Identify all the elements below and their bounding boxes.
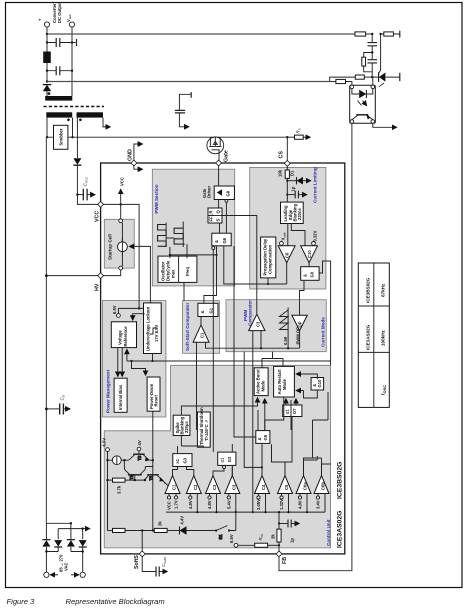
svg-text:T3: T3 [137, 455, 142, 461]
node junction bulk cap tap [45, 408, 48, 411]
node junctions on bus [196, 511, 198, 513]
svg-text:3k: 3k [158, 521, 163, 526]
node junction [371, 51, 373, 53]
diode bridge D4 [79, 540, 87, 547]
ground arrow GND down [134, 165, 142, 169]
svg-text:Soft-Start Comparator: Soft-Start Comparator [185, 303, 190, 351]
pin GND [131, 160, 137, 166]
optocoupler box [350, 85, 376, 123]
refs C6b [316, 494, 325, 513]
wire G6 to FF1 S [219, 223, 221, 233]
section PWM gray [152, 169, 234, 286]
resistor R2 [381, 31, 400, 38]
svg-text:HV: HV [95, 283, 101, 291]
transformer core dashed line [44, 106, 105, 108]
capacitor RC parallel C [368, 53, 378, 78]
resistor 10k CS [285, 170, 289, 202]
svg-text:+: + [38, 18, 43, 21]
svg-text:5.4V: 5.4V [227, 500, 232, 509]
block Voltage Reference [111, 322, 136, 348]
wire T1 emitter out [164, 482, 169, 496]
resistor 3k FB vertical [277, 522, 281, 543]
wire G3 risers [173, 436, 204, 476]
svg-text:17V 8.5V: 17V 8.5V [154, 325, 159, 342]
refs C6a [298, 494, 307, 513]
svg-text:G5: G5 [263, 434, 268, 440]
refs C2 [188, 494, 197, 513]
section Current Mode gray [226, 300, 326, 352]
wire AutoRestart up to CurrentMode [262, 352, 283, 368]
left HV bulk rail [45, 137, 47, 523]
section Power Management gray [102, 301, 165, 417]
wire osc to G6 [170, 254, 217, 256]
svg-text:Gate: Gate [224, 150, 230, 162]
opamp PWM OP [292, 315, 307, 330]
section Current Limiting gray [250, 167, 326, 289]
wire softS riser [141, 531, 143, 552]
svg-text:C6b: C6b [321, 482, 326, 490]
refs C3a [207, 494, 216, 513]
wire C10 to G9 [308, 263, 310, 267]
svg-text:4.8V: 4.8V [188, 500, 193, 509]
svg-text:6.5V: 6.5V [229, 534, 234, 543]
wire sense split [330, 77, 356, 81]
block gate G1 [198, 303, 218, 316]
node junction [152, 529, 154, 531]
capacitor output C1 [47, 38, 77, 47]
node junction TL431 ref [371, 76, 373, 78]
svg-text:VCC: VCC [95, 211, 101, 222]
sawtooth oscillator glyph [280, 308, 289, 334]
startup cell top pin circle [119, 219, 123, 223]
svg-text:S: S [216, 219, 221, 222]
svg-text:4V: 4V [137, 440, 142, 445]
wire G5 riser [232, 397, 283, 476]
wire T2-T1 top link [145, 467, 153, 470]
block gate G7 [283, 405, 302, 417]
wire sense rail lower (to opto/TL431) [47, 81, 330, 83]
svg-text:3.4V: 3.4V [316, 500, 321, 509]
svg-text:G8: G8 [226, 190, 231, 196]
svg-text:6.5V: 6.5V [102, 438, 107, 447]
block Thermal Shutdown [197, 407, 210, 447]
block Gate Driver [214, 186, 234, 200]
svg-text:Voltage: Voltage [118, 330, 123, 345]
resistor RC parallel R [362, 53, 372, 72]
wire FB to bus riser [278, 512, 280, 521]
section Soft Start gray [183, 301, 220, 354]
svg-text:C10: C10 [307, 250, 312, 258]
node junction base [134, 479, 136, 481]
node ref 6.5V burst [102, 438, 110, 452]
svg-text:67kHz: 67kHz [381, 283, 386, 297]
wire UVLO to VR arrow [133, 314, 145, 320]
svg-text:4.8V: 4.8V [298, 500, 303, 509]
resistor RFB [238, 543, 279, 547]
inductor output L [43, 52, 51, 64]
svg-text:C8: C8 [285, 252, 290, 258]
svg-text:6.5V: 6.5V [112, 305, 117, 314]
resistor divider R1 [355, 32, 372, 36]
optocoupler pin circles [350, 85, 354, 89]
svg-text:100kHz: 100kHz [381, 329, 386, 346]
svg-text:D1: D1 [290, 170, 295, 176]
transistor T1 [145, 475, 166, 484]
transformer primary winding [46, 112, 72, 117]
svg-text:ICE3AS02G: ICE3AS02G [337, 511, 344, 548]
transformer secondary winding [45, 96, 72, 101]
svg-text:Startup Cell: Startup Cell [108, 234, 113, 260]
block Propagation Delay Compensation [261, 237, 276, 278]
optocoupler light arrows [358, 101, 367, 106]
svg-text:Snubber: Snubber [59, 128, 64, 145]
wire drain line [73, 136, 288, 138]
node junction [46, 80, 48, 82]
transistor T2 [124, 469, 145, 480]
wire C1 to G1 [200, 317, 202, 325]
optocoupler LED [352, 89, 373, 99]
switch S1 [215, 526, 243, 540]
wire sense to CS pin [286, 137, 288, 161]
svg-text:4.8V: 4.8V [207, 500, 212, 509]
svg-text:ICE3BS02G: ICE3BS02G [366, 277, 371, 303]
snubber block [54, 125, 68, 149]
TL431 shunt regulator [372, 34, 400, 87]
comparator C1 soft start [193, 325, 209, 342]
wire C1 right input bus [206, 342, 300, 348]
comparator C3 PWM [249, 314, 265, 330]
wire startup to HV [103, 270, 121, 276]
wire S1 to bus [229, 512, 236, 530]
wire gate pin to driver [218, 165, 220, 185]
node junction [286, 194, 288, 196]
wire VCC internal rail [103, 204, 139, 308]
waveform clock glyph 1 [158, 223, 167, 248]
refs C5 [279, 494, 288, 513]
node junction [71, 70, 73, 72]
svg-text:SoftS: SoftS [134, 555, 140, 569]
svg-text:1.7V: 1.7V [174, 500, 179, 509]
wire spike blanking top [181, 398, 257, 415]
optocoupler phototransistor [352, 115, 373, 120]
arrow VCC internal [120, 190, 122, 205]
svg-text:G1: G1 [209, 307, 214, 313]
wire G1 to G6 [204, 246, 217, 303]
node junction [267, 283, 269, 285]
block Oscillator [158, 256, 197, 282]
resistor to TL431 [355, 75, 372, 79]
gate driver inverter bubble [225, 200, 228, 203]
svg-text:≥1: ≥1 [175, 458, 180, 463]
svg-text:≥1: ≥1 [285, 409, 290, 414]
node junction [123, 459, 125, 461]
svg-text:C1: C1 [172, 484, 177, 490]
wire osc clock riser 1 [169, 247, 171, 258]
block Internal Bias [114, 378, 127, 412]
resistor soft start [108, 528, 155, 532]
svg-text:C6a: C6a [303, 482, 308, 490]
node junction [141, 529, 143, 531]
svg-text:Compensation: Compensation [268, 244, 273, 274]
wire UVLO down stub [152, 354, 154, 362]
node phase dot primary [67, 119, 70, 122]
wire FB riser [278, 542, 280, 552]
wire power-down reset feed [132, 361, 146, 375]
comparator C3b [225, 476, 240, 494]
node junction source/drain rail [286, 136, 288, 138]
node junction [215, 254, 217, 256]
svg-text:VCC: VCC [167, 501, 172, 510]
node junction [138, 307, 140, 309]
wire T2 collector riser [123, 460, 125, 469]
node junction [130, 360, 132, 362]
svg-text:FB: FB [282, 557, 288, 564]
wire current limit to G6 [224, 246, 287, 284]
svg-text:Current Limiting: Current Limiting [313, 167, 318, 203]
wire T3 emitter to PDR rail [150, 459, 153, 461]
block Active Burst Mode [254, 368, 268, 396]
comparator C10 [301, 246, 318, 263]
node junction [278, 522, 280, 524]
node ref 4.0V [137, 440, 142, 451]
wire G10 bottom feed [296, 390, 317, 398]
node junction [71, 41, 73, 43]
node junction VCC [120, 203, 122, 205]
node junction [46, 33, 48, 35]
svg-text:C2: C2 [193, 484, 198, 490]
wire PDR riser down [152, 411, 154, 530]
wire VCC to startup [120, 204, 122, 219]
svg-text:Control Unit: Control Unit [326, 519, 331, 546]
node junction [260, 347, 262, 349]
node Vout- terminal [69, 22, 74, 27]
diode output rectifier [43, 85, 51, 96]
block Auto Restart Mode [274, 366, 295, 397]
comparator C5 [278, 476, 293, 494]
diode bridge D2 [54, 540, 62, 547]
wire sense rail top (Vout+ to divider) [47, 33, 355, 35]
svg-text:Vout: Vout [66, 15, 72, 22]
wire G9 down to PWM OP [300, 280, 305, 315]
node Vout+ terminal [44, 22, 49, 27]
block Spike Blanking [173, 415, 190, 435]
wire driver bubble to G6 [225, 202, 227, 233]
svg-text:G3: G3 [183, 457, 188, 463]
resistor opto series [330, 79, 352, 85]
node junction [46, 70, 48, 72]
svg-text:RS: RS [296, 128, 302, 133]
svg-text:1p: 1p [291, 186, 296, 191]
resistor Rsense [287, 135, 310, 139]
svg-text:10k: 10k [278, 169, 283, 177]
node junction [144, 479, 146, 481]
svg-text:Internal Bias: Internal Bias [118, 384, 123, 410]
wire G9 output right [319, 261, 331, 365]
svg-text:PWM Section: PWM Section [154, 184, 159, 213]
section Control Unit gray [104, 365, 330, 548]
capacitor bulk [46, 404, 69, 415]
svg-text:Comparator: Comparator [248, 300, 253, 326]
svg-text:&: & [214, 240, 219, 243]
refs C1b [167, 494, 179, 511]
comparator C6a [296, 476, 311, 494]
block Power-Down Reset [147, 377, 160, 411]
transistor CoolMOS Q1 [207, 137, 224, 161]
node junction [82, 527, 84, 529]
node junction [70, 522, 72, 524]
svg-text:0.59: 0.59 [283, 336, 288, 345]
pin HV [98, 273, 104, 279]
wire C3 output to FF1 [222, 216, 257, 315]
svg-text:Driver: Driver [207, 186, 212, 198]
wire Vcsth to C8 [280, 244, 282, 247]
svg-text:C5: C5 [284, 484, 289, 490]
diode bridge D1 [42, 540, 50, 547]
block FF1 PWM latch [208, 208, 222, 223]
capacitor feedback [368, 34, 378, 53]
wire startup control arrow from UVLO [130, 246, 151, 303]
svg-text:&: & [257, 437, 262, 440]
ground arrow aux winding return [103, 118, 110, 127]
block gate G3 [173, 454, 192, 467]
node junction [82, 550, 84, 552]
block gate G5 [256, 431, 270, 444]
node ref 6.5V FB [229, 534, 238, 547]
svg-text:CB: CB [60, 395, 66, 400]
wire G7 down [285, 417, 292, 463]
svg-text:S1: S1 [218, 534, 223, 540]
svg-text:3.7k: 3.7k [117, 485, 122, 494]
G6 inverter bubble [212, 247, 215, 250]
svg-text:GND: GND [128, 149, 134, 161]
startup cell bottom pin circle [119, 266, 123, 270]
node ref 0.32V [312, 230, 318, 245]
capacitor output C2 [47, 66, 72, 75]
wire PWM down bus 1 [212, 250, 214, 453]
FB bus [166, 511, 325, 513]
wire output right rail [71, 27, 73, 96]
block gate G2 [218, 452, 236, 468]
svg-text:&: & [200, 310, 205, 313]
wire opto to FB pin [279, 123, 352, 570]
svg-text:G10: G10 [317, 379, 322, 388]
svg-text:DC Output: DC Output [57, 1, 62, 23]
pin CS [284, 160, 290, 166]
startup cell gray box [104, 219, 134, 268]
wire C6 risers [304, 458, 331, 476]
node junction top rail 2 [379, 33, 381, 35]
capacitor CSoftS [142, 556, 167, 577]
wire PWM OP out [299, 331, 301, 349]
ground arrow GND up [134, 144, 142, 161]
svg-text:fOSC: fOSC [381, 385, 387, 395]
node phase dot secondary [48, 92, 51, 95]
svg-text:Reference: Reference [123, 326, 128, 347]
wire CS into IC [286, 166, 288, 171]
label AC range with arrows [51, 554, 79, 575]
current source burst [108, 456, 129, 465]
bridge rectifier wires top [46, 523, 82, 539]
wire G10 to AutoRestart [296, 374, 317, 379]
block gate G10 [311, 378, 324, 391]
comparator C1b [165, 476, 180, 494]
wire G5 up arrow [264, 399, 266, 431]
node phase dot auxiliary [79, 119, 82, 122]
svg-text:Undervoltage Lockout: Undervoltage Lockout [146, 306, 151, 351]
wire internal bus [127, 360, 331, 362]
node junction [76, 193, 78, 195]
comparator C8 [278, 246, 295, 263]
comparator C3a [206, 476, 221, 494]
svg-text:max: max [171, 269, 176, 278]
wire aux winding to VCC diode [76, 118, 78, 158]
node junction [169, 254, 171, 256]
resistor 3k soft [154, 528, 175, 532]
node ref Vcsth [280, 232, 287, 245]
svg-text:VCC: VCC [119, 177, 124, 186]
svg-text:220µs: 220µs [184, 421, 189, 433]
wire G5 to C4 riser [272, 444, 322, 475]
svg-text:OP: OP [298, 321, 303, 327]
wire HV feed [46, 275, 98, 277]
wire primary right to drain line [72, 118, 74, 138]
node junction [286, 180, 288, 182]
comparator C2 [186, 476, 201, 494]
svg-text:1p: 1p [290, 538, 295, 543]
wire PWM down bus 2 [234, 246, 256, 437]
wire LEB outputs down [288, 224, 305, 246]
svg-text:ICE3AS02G: ICE3AS02G [366, 324, 371, 350]
wire snubber leads [47, 136, 73, 138]
pin VCC [98, 201, 104, 207]
wire G7 to AutoRestart [285, 399, 287, 405]
wire glyph connector [166, 237, 174, 239]
wire propdelay to C8 minus [268, 263, 287, 284]
diode bridge D3 [67, 540, 75, 547]
svg-text:Mode: Mode [260, 380, 265, 392]
svg-text:Mode: Mode [282, 378, 287, 390]
svg-text:VAC: VAC [64, 562, 69, 571]
svg-text:CVCC: CVCC [83, 176, 89, 186]
pin Gate [216, 160, 222, 166]
node junction [261, 466, 263, 468]
comparator C6b [314, 476, 329, 494]
capacitor FB filter [279, 520, 299, 528]
refs C3b [227, 494, 236, 513]
svg-text:Power Management: Power Management [106, 369, 111, 413]
svg-text:1.32V: 1.32V [279, 499, 284, 510]
capacitor CS filter with ground [287, 191, 306, 199]
wire osc bottom to soft start [183, 282, 185, 301]
wire 0.32V to C10 [313, 244, 315, 247]
wire G2 riser [213, 465, 232, 475]
node junction [45, 550, 47, 552]
svg-text:R: R [209, 210, 214, 213]
transformer auxiliary winding [77, 112, 104, 117]
svg-text:C3: C3 [256, 321, 261, 327]
diode VCC rectifier [73, 158, 81, 165]
transistor T3 cascode [129, 451, 150, 462]
wire TL431 to opto cathode [372, 77, 374, 85]
svg-text:CS: CS [279, 151, 285, 159]
node junction top rail [371, 33, 373, 35]
current source startup [118, 223, 128, 267]
svg-text:≥1: ≥1 [220, 457, 225, 462]
node AC terminal L [44, 572, 49, 577]
node junction [287, 347, 289, 349]
arrows VR to bias [117, 348, 119, 377]
resistor 3.7k [108, 478, 145, 482]
